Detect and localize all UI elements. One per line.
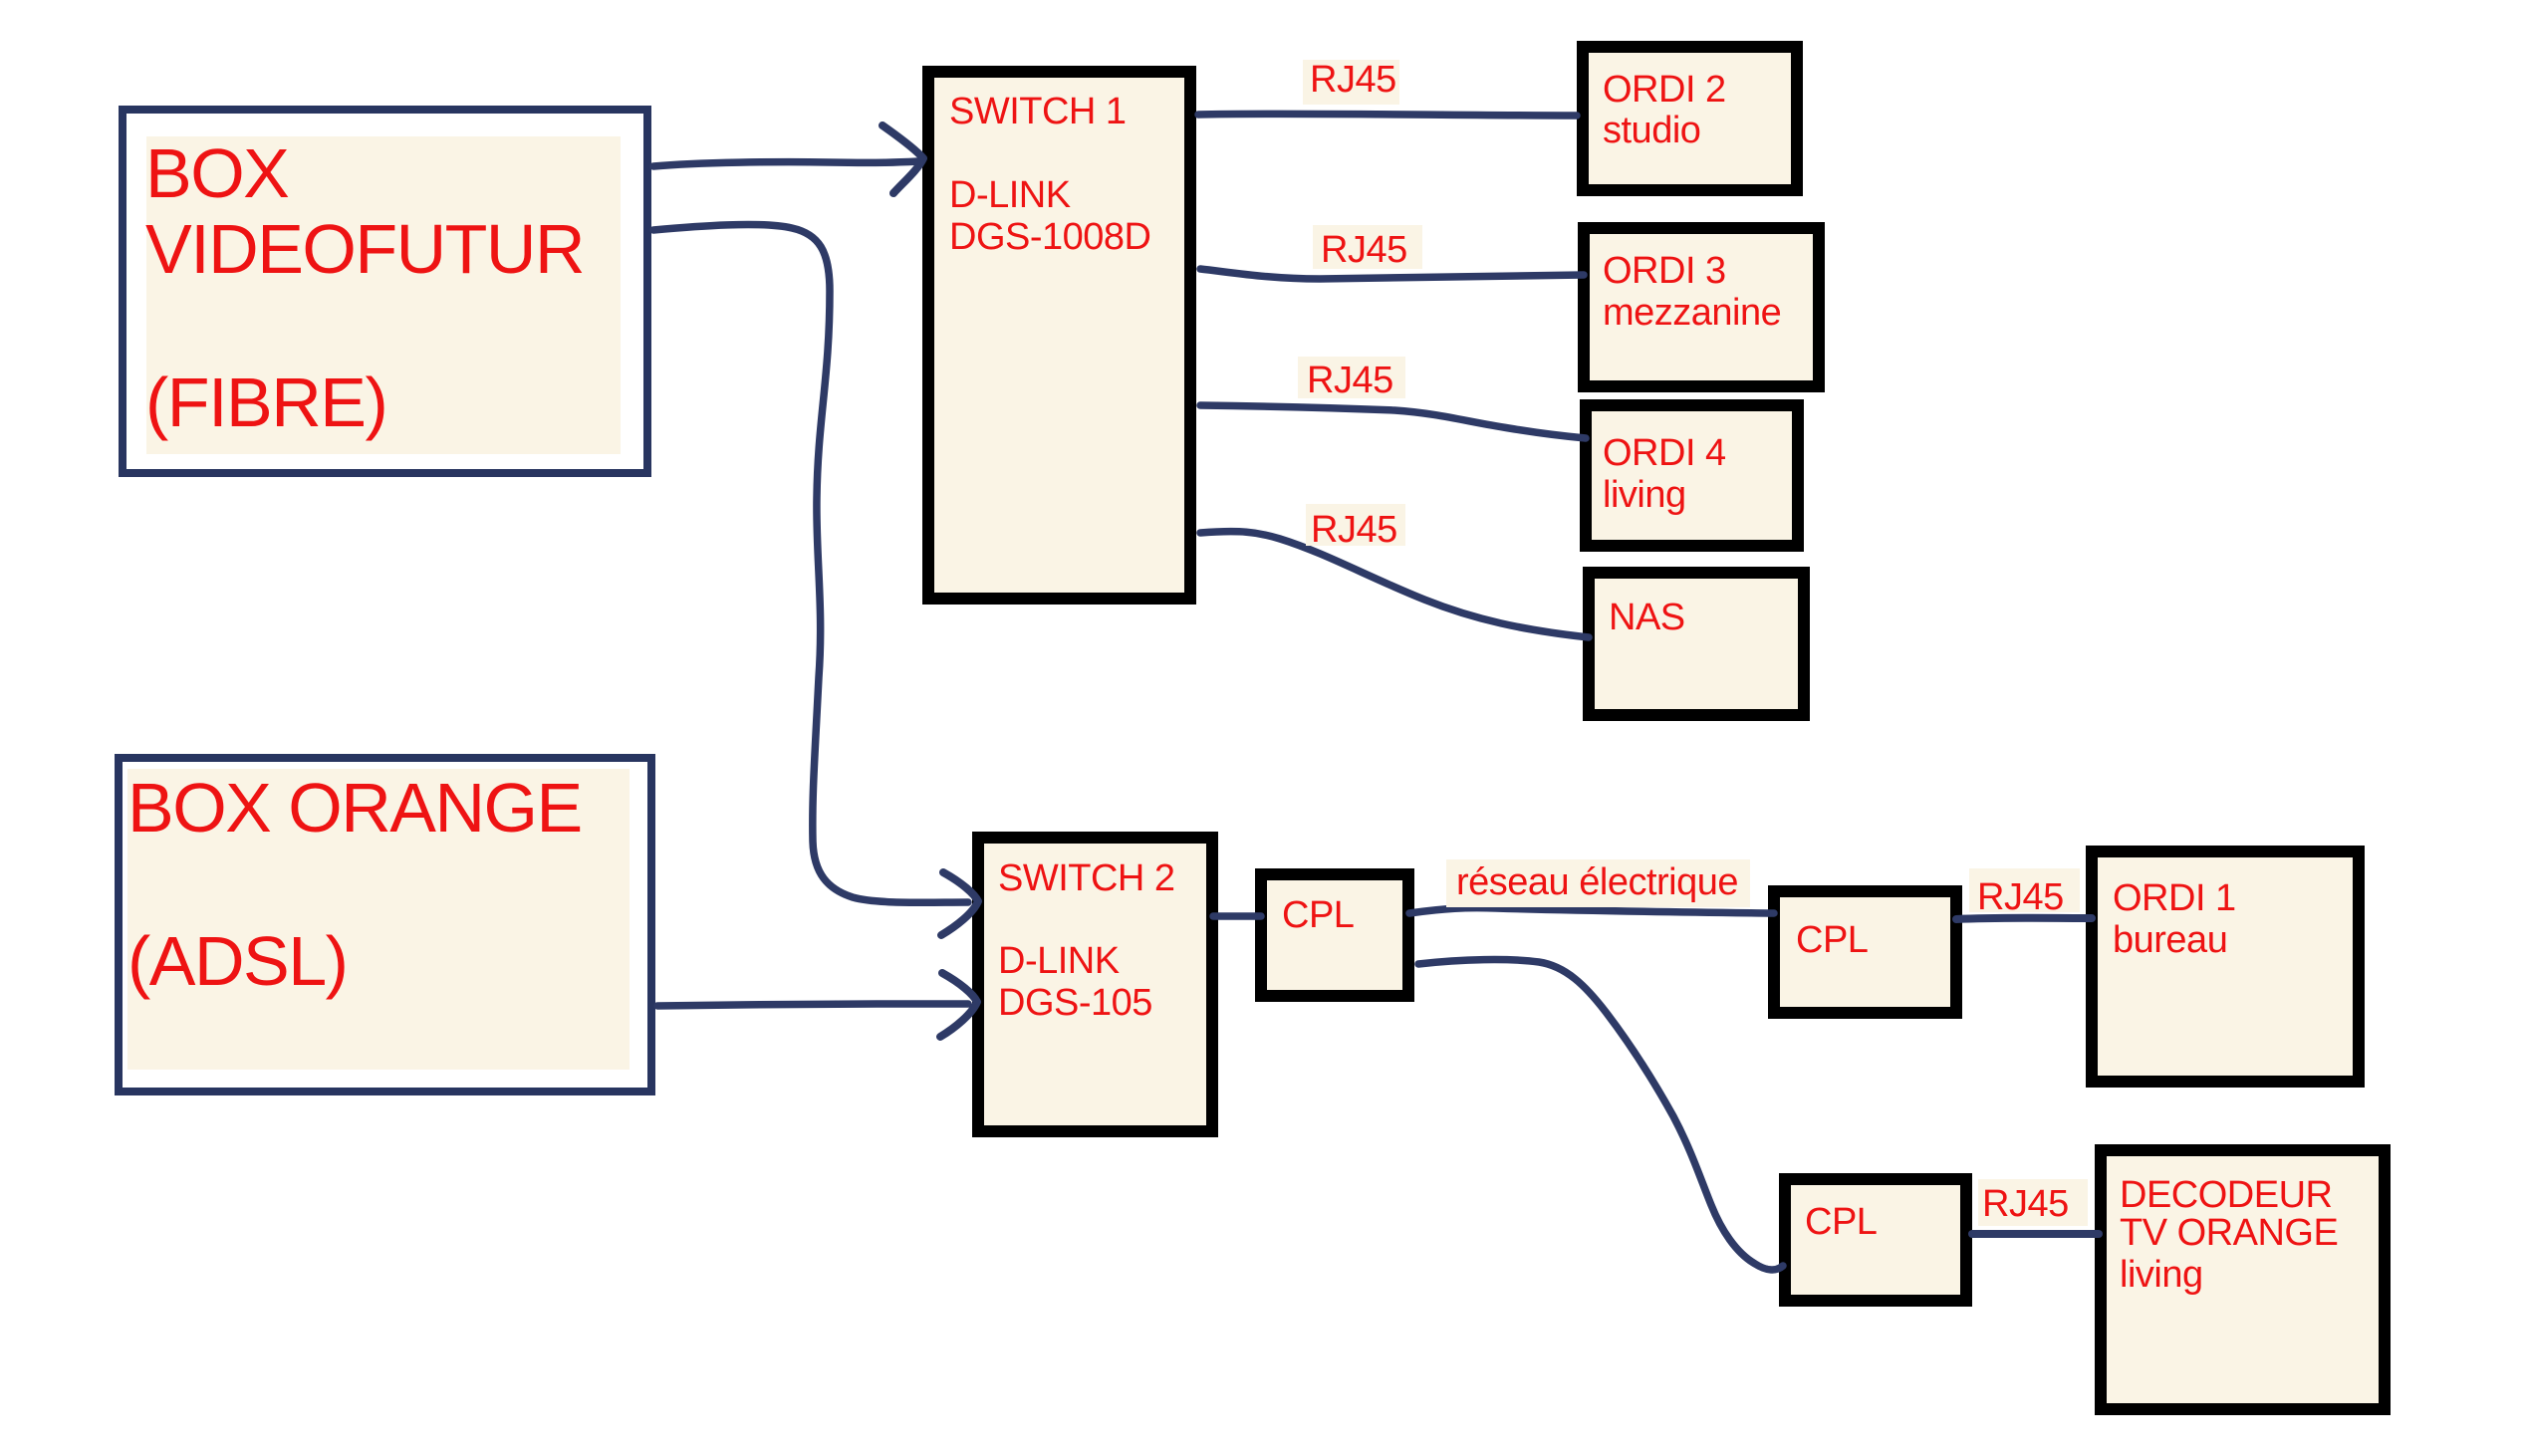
box CPL 3 <box>1785 1179 1966 1301</box>
box BOX ORANGE (ADSL) <box>119 758 651 1092</box>
svg-text:bureau: bureau <box>2113 919 2227 961</box>
svg-text:mezzanine: mezzanine <box>1603 292 1781 334</box>
label RJ45 (CPL3-DECODEUR) <box>1978 1179 2088 1226</box>
wire CPL 2 to ORDI 1 (RJ45) <box>1956 918 2092 919</box>
box ORDI 4 living <box>1586 405 1798 546</box>
svg-text:RJ45: RJ45 <box>1977 876 2064 918</box>
label RJ45 (CPL2-ORDI1) <box>1969 868 2080 918</box>
wire BOX ORANGE to SWITCH 2 <box>657 1004 968 1006</box>
wire CPL 1 to CPL 3 (descending curve) <box>1418 960 1783 1270</box>
box CPL 2 <box>1774 891 1956 1013</box>
wire CPL 1 to CPL 2 (réseau électrique) <box>1409 908 1774 913</box>
svg-text:CPL: CPL <box>1805 1201 1877 1243</box>
svg-text:DECODEUR: DECODEUR <box>2120 1174 2332 1216</box>
svg-text:ORDI 2: ORDI 2 <box>1603 69 1726 111</box>
svg-text:(ADSL): (ADSL) <box>127 922 347 1000</box>
box BOX VIDEOFUTUR (FIBRE) <box>123 110 647 473</box>
wire SWITCH 2 to CPL 1 <box>1213 912 1261 920</box>
wire BOX VIDEOFUTUR to SWITCH 1 <box>653 161 918 166</box>
label RJ45 (SWITCH1-ORDI2) <box>1303 59 1399 105</box>
svg-text:CPL: CPL <box>1282 894 1354 936</box>
wire BOX VIDEOFUTUR to SWITCH 2 (long vertical) <box>653 224 968 902</box>
svg-text:ORDI 4: ORDI 4 <box>1603 432 1726 474</box>
svg-text:VIDEOFUTUR: VIDEOFUTUR <box>145 210 584 288</box>
box CPL 1 <box>1261 874 1408 996</box>
arrowhead into SWITCH 1 <box>883 125 923 193</box>
svg-text:BOX ORANGE: BOX ORANGE <box>127 769 582 847</box>
box ORDI 3 mezzanine <box>1584 228 1819 386</box>
svg-text:RJ45: RJ45 <box>1982 1183 2069 1225</box>
wire SWITCH 1 to ORDI 4 (RJ45) <box>1200 405 1586 438</box>
svg-text:DGS-105: DGS-105 <box>998 982 1152 1024</box>
label RJ45 (SWITCH1-ORDI3) <box>1313 225 1422 271</box>
svg-text:RJ45: RJ45 <box>1311 509 1397 551</box>
svg-text:NAS: NAS <box>1609 597 1685 638</box>
svg-text:DGS-1008D: DGS-1008D <box>949 216 1150 258</box>
wire SWITCH 1 to NAS (RJ45) <box>1200 532 1589 637</box>
svg-text:SWITCH 2: SWITCH 2 <box>998 857 1175 899</box>
svg-text:D-LINK: D-LINK <box>998 940 1120 982</box>
box NAS <box>1589 573 1804 715</box>
svg-text:(FIBRE): (FIBRE) <box>145 364 386 441</box>
arrowhead into SWITCH 2 (bottom) <box>940 973 977 1037</box>
box SWITCH 1 D-LINK DGS-1008D <box>928 72 1190 599</box>
svg-text:RJ45: RJ45 <box>1310 59 1396 101</box>
svg-text:TV ORANGE: TV ORANGE <box>2120 1212 2338 1254</box>
label réseau électrique <box>1446 859 1750 907</box>
box DECODEUR TV ORANGE living <box>2101 1150 2385 1409</box>
svg-text:D-LINK: D-LINK <box>949 174 1071 216</box>
wire SWITCH 1 to ORDI 3 (RJ45) <box>1200 269 1584 279</box>
svg-text:ORDI 3: ORDI 3 <box>1603 250 1726 292</box>
box ORDI 1 bureau <box>2092 851 2359 1082</box>
box ORDI 2 studio <box>1583 47 1797 190</box>
label RJ45 (SWITCH1-NAS) <box>1306 504 1405 551</box>
svg-text:living: living <box>2120 1254 2203 1296</box>
svg-text:BOX: BOX <box>145 134 289 212</box>
svg-text:studio: studio <box>1603 110 1700 151</box>
wire CPL 3 to DECODEUR (RJ45) <box>1972 1230 2099 1238</box>
svg-text:CPL: CPL <box>1796 919 1868 961</box>
svg-text:RJ45: RJ45 <box>1321 229 1407 271</box>
svg-text:ORDI 1: ORDI 1 <box>2113 877 2236 919</box>
svg-text:SWITCH 1: SWITCH 1 <box>949 91 1127 132</box>
svg-text:RJ45: RJ45 <box>1307 360 1393 401</box>
svg-text:réseau électrique: réseau électrique <box>1456 861 1738 903</box>
arrowhead into SWITCH 2 (top) <box>941 872 978 935</box>
label RJ45 (SWITCH1-ORDI4) <box>1298 357 1405 401</box>
wire SWITCH 1 to ORDI 2 (RJ45) <box>1198 114 1577 116</box>
svg-text:living: living <box>1603 474 1686 516</box>
box SWITCH 2 D-LINK DGS-105 <box>978 838 1212 1131</box>
